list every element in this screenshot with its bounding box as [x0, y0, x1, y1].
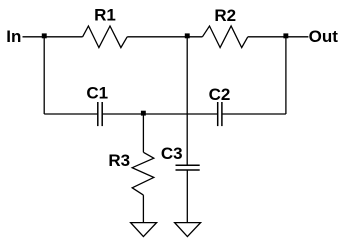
wire R3 to ground [142, 195, 144, 223]
capacitor C2 [218, 102, 222, 126]
resistor R1 [83, 26, 128, 48]
wire center rail node B to C3 [186, 37, 188, 166]
wire R2 to Out [248, 36, 309, 38]
capacitor C3 [176, 165, 200, 170]
wire left rail to C1 [44, 113, 98, 115]
wire R1 to R2 [127, 36, 202, 38]
junction node A [42, 33, 47, 38]
junction node B [185, 33, 190, 38]
wire C3 to ground [186, 170, 188, 223]
wire right rail [285, 37, 287, 114]
svg-text:R1: R1 [94, 6, 116, 25]
resistor R3 [132, 152, 154, 195]
resistor R2 [202, 26, 247, 48]
wire In to node A [23, 36, 83, 38]
ground for R3 [131, 223, 157, 237]
capacitor C1 [98, 102, 102, 126]
wire node D to R3 [142, 114, 144, 152]
junction node C [283, 33, 288, 38]
wire C1 to C2 [102, 113, 218, 115]
svg-text:C1: C1 [86, 84, 108, 103]
svg-text:Out: Out [309, 27, 339, 46]
svg-text:R3: R3 [108, 151, 130, 170]
junction node D [141, 111, 146, 116]
svg-text:In: In [6, 27, 21, 46]
svg-text:C3: C3 [161, 144, 183, 163]
svg-text:R2: R2 [214, 6, 236, 25]
wire C2 to right rail [222, 113, 286, 115]
svg-text:C2: C2 [209, 85, 231, 104]
ground for C3 [175, 223, 201, 237]
wire left rail [43, 37, 45, 114]
